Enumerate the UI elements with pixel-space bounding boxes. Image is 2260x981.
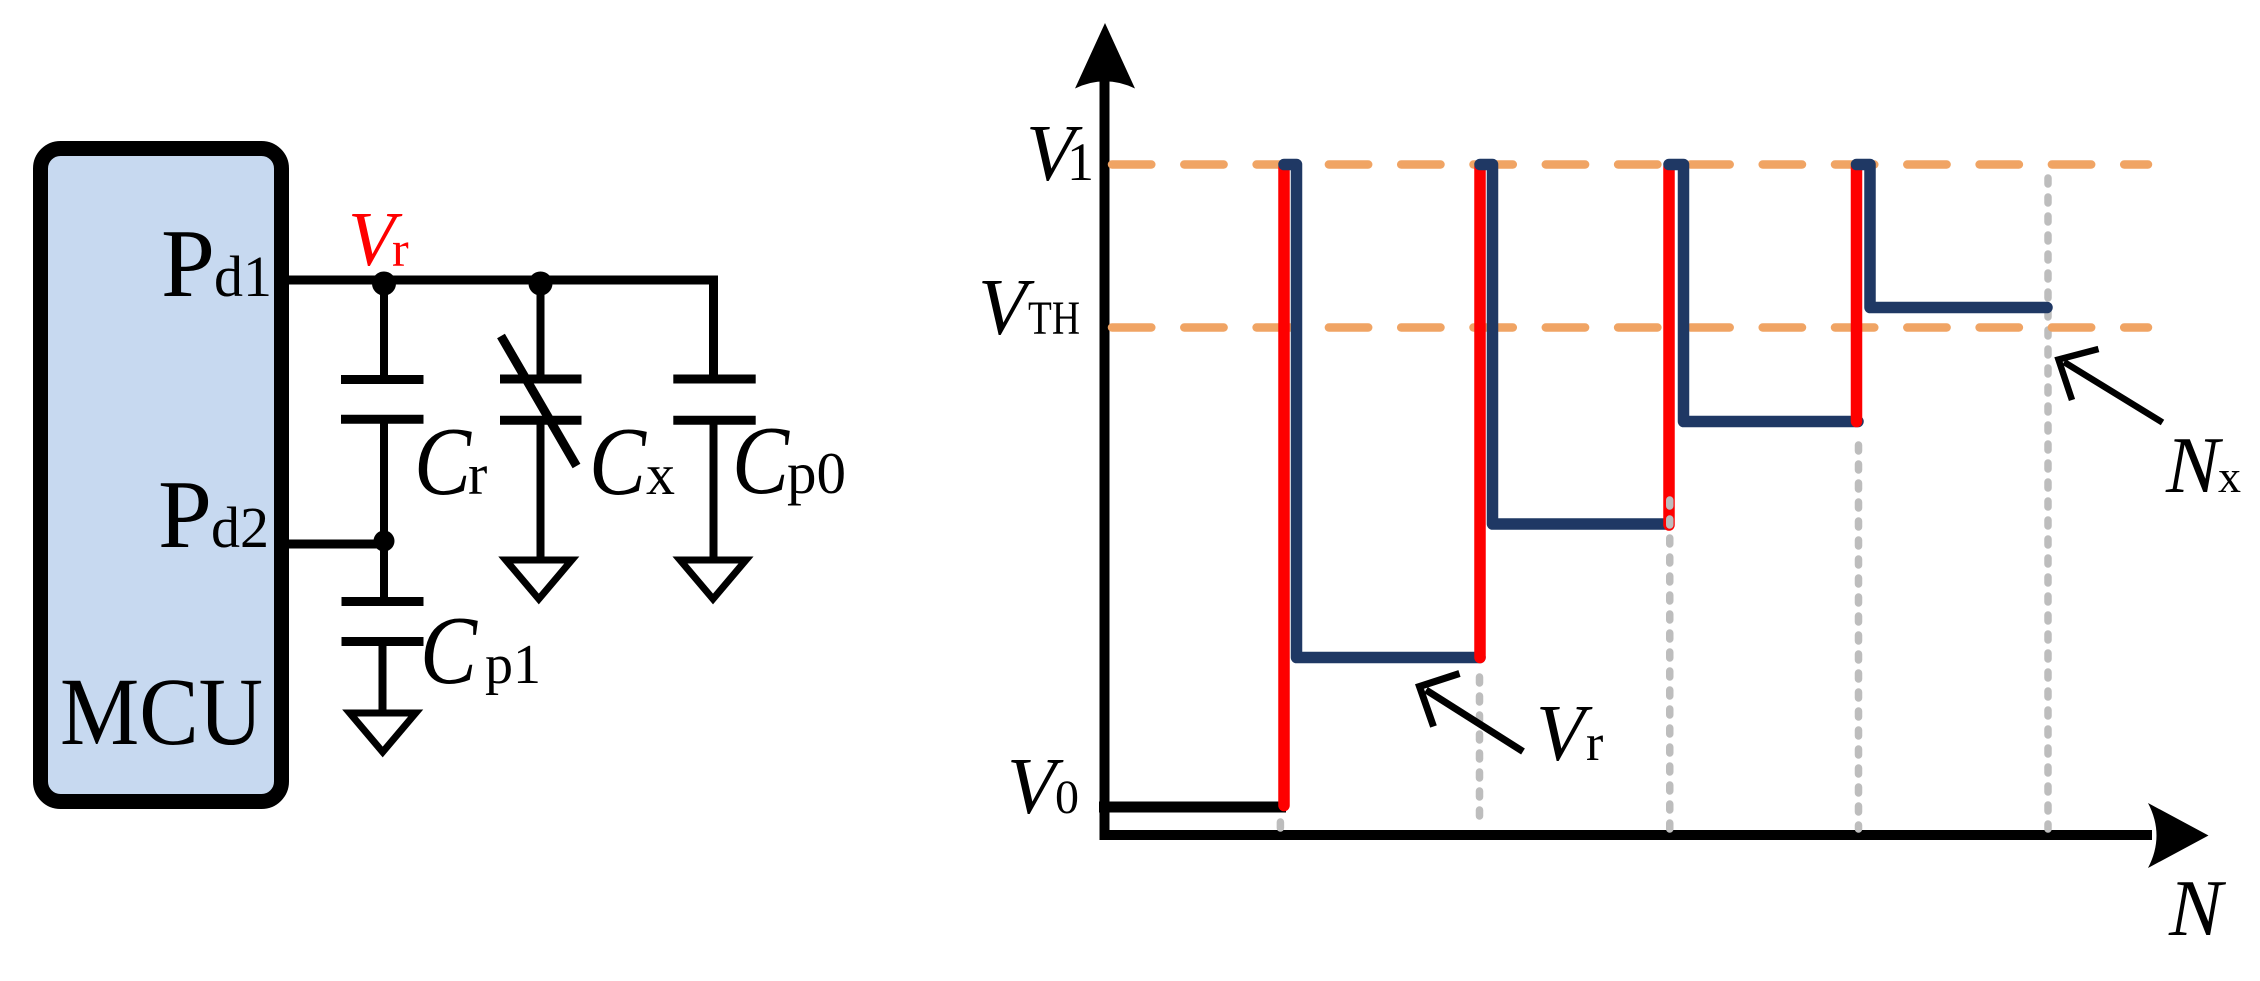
svg-text:TH: TH [1028,292,1080,345]
svg-text:d1: d1 [214,244,272,309]
svg-text:r: r [468,442,487,507]
blue discharge step 4 [1857,165,2048,308]
ground under Cp1 [350,713,416,752]
svg-text:C: C [420,597,478,705]
svg-text:p1: p1 [485,634,541,696]
node Vr junction dot [372,272,396,296]
svg-text:P: P [158,461,212,568]
wire Pd2 horizontal [289,540,384,549]
wire Cp0 ground lead [710,420,718,559]
wire Pd1 horizontal [289,276,718,285]
svg-text:V: V [1536,690,1593,778]
svg-text:MCU: MCU [60,658,263,765]
red rise 3 [1663,167,1675,525]
blue discharge step 1 [1284,165,1480,658]
V0 level segment [1099,802,1286,813]
red rise 1 [1278,167,1290,806]
svg-text:N: N [2168,865,2227,953]
wire Cr bottom lead [380,419,388,601]
svg-text:x: x [2218,451,2241,502]
gray sample line 3 [1666,500,1674,829]
wire Cr top lead [380,280,388,376]
y axis arrowhead [1075,23,1135,89]
variable strike on Cx [501,336,577,466]
gray sample line 1 [1277,822,1285,829]
annotation arrow Vr [1426,690,1523,752]
capacitor Cp0 [673,375,755,384]
red rise 4 [1851,167,1863,422]
capacitor Cp1 [342,597,424,606]
svg-text:C: C [732,407,790,515]
svg-text:C: C [414,408,472,516]
svg-text:0: 0 [1055,771,1079,824]
blue discharge step 2 [1480,165,1666,525]
x axis [1100,830,2152,840]
junction dot node Cx [529,272,553,296]
annotation arrow Nx [2064,362,2163,423]
svg-text:P: P [161,210,215,317]
svg-text:d2: d2 [211,495,269,560]
gray sample line 4 [1855,445,1863,829]
wire Cx top lead [537,280,545,376]
blue discharge step 3 [1669,165,1858,422]
dashed orange V1 level [1112,160,2148,169]
svg-text:r: r [1586,715,1603,772]
dashed orange VTH level [1112,323,2148,332]
wire Cp1 ground lead [379,642,387,715]
svg-text:p0: p0 [787,440,846,506]
x axis arrowhead [2148,803,2209,868]
svg-text:r: r [392,221,409,277]
svg-text:V: V [978,264,1035,352]
ground under Cx [506,560,572,599]
capacitor Cx (variable) [500,375,582,384]
gray sample line 2 [1476,677,1484,829]
node Pd2 junction dot [374,531,395,552]
capacitor Cr [341,375,424,384]
svg-text:N: N [2165,422,2224,510]
gray sample line 5 [2044,178,2052,829]
svg-text:1: 1 [1067,132,1094,192]
ground under Cp0 [680,560,746,599]
svg-text:C: C [589,408,647,516]
y axis [1100,55,1110,840]
wire Cp0 vertical lead [709,276,718,376]
wire Cx ground lead [537,420,545,559]
MCU block U1 [41,149,282,802]
red rise 2 [1474,167,1486,658]
svg-text:x: x [646,442,675,507]
